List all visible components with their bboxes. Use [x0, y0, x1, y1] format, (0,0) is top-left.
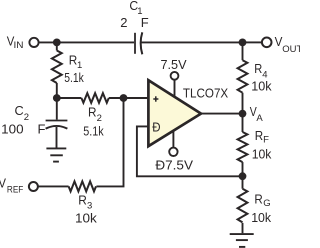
svg-text:2: 2	[120, 15, 127, 30]
svg-text:OUT: OUT	[282, 44, 300, 55]
svg-text:F: F	[141, 15, 149, 30]
svg-text:R: R	[254, 61, 262, 76]
svg-text:2: 2	[24, 112, 29, 123]
svg-text:G: G	[263, 198, 270, 209]
svg-text:REF: REF	[7, 184, 24, 195]
svg-text:TLCO7X: TLCO7X	[183, 86, 229, 100]
svg-text:7.5V: 7.5V	[161, 57, 187, 72]
svg-text:10k: 10k	[251, 210, 271, 225]
svg-text:R: R	[255, 128, 263, 143]
svg-text:10k: 10k	[252, 147, 272, 162]
svg-text:Đ: Đ	[152, 119, 160, 134]
svg-text:Đ7.5V: Đ7.5V	[155, 158, 193, 173]
svg-text:IN: IN	[14, 40, 24, 51]
svg-text:R: R	[254, 191, 262, 206]
svg-text:V: V	[0, 176, 6, 191]
svg-text:A: A	[256, 113, 263, 124]
svg-text:F: F	[38, 122, 46, 137]
svg-text:5.1k: 5.1k	[83, 123, 104, 138]
svg-text:10k: 10k	[251, 78, 272, 93]
svg-text:10k: 10k	[75, 211, 97, 226]
svg-text:F: F	[263, 134, 269, 145]
svg-text:5.1k: 5.1k	[64, 70, 84, 85]
svg-text:R: R	[88, 104, 97, 119]
svg-text:R: R	[78, 192, 87, 207]
svg-text:C: C	[15, 103, 24, 118]
svg-text:100: 100	[1, 122, 23, 137]
